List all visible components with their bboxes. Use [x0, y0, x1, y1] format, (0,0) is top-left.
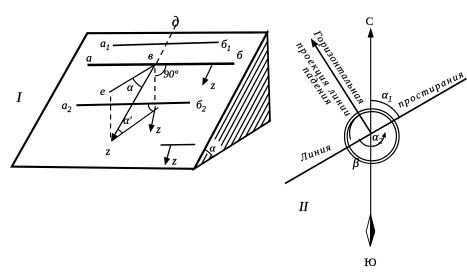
svg-text:С: С [366, 16, 374, 28]
svg-text:α: α [127, 82, 134, 94]
svg-text:Ю: Ю [364, 255, 376, 269]
svg-text:z: z [155, 124, 161, 136]
svg-text:в: в [148, 51, 153, 63]
svg-text:z: z [210, 80, 216, 92]
svg-text:z: z [171, 156, 177, 168]
svg-text:е: е [100, 86, 105, 98]
svg-text:β: β [352, 156, 360, 170]
svg-text:I: I [16, 90, 23, 106]
svg-text:90°: 90° [164, 70, 180, 81]
svg-text:z: z [105, 146, 111, 158]
svg-text:а: а [86, 53, 92, 65]
svg-text:д: д [172, 15, 179, 31]
svg-text:α: α [210, 143, 216, 155]
svg-text:II: II [298, 199, 309, 214]
svg-text:α': α' [123, 115, 132, 127]
